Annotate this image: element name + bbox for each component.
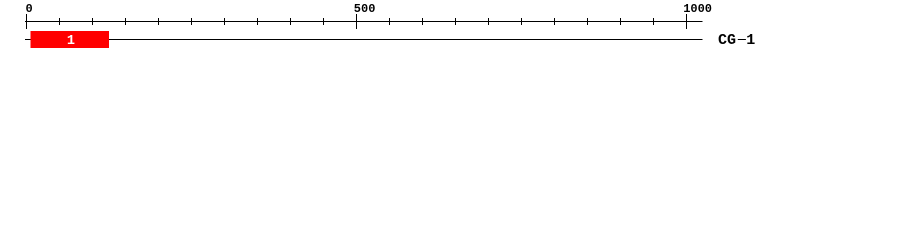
minor tick 50 — [59, 18, 60, 25]
svg-text:500: 500 — [354, 2, 376, 16]
minor tick 750 — [521, 18, 522, 25]
svg-text:1: 1 — [746, 32, 755, 49]
track connector line — [25, 39, 703, 40]
minor tick 100 — [92, 18, 93, 25]
minor tick 300 — [224, 18, 225, 25]
minor tick 550 — [389, 18, 390, 25]
minor tick 800 — [554, 18, 555, 25]
minor tick 850 — [587, 18, 588, 25]
minor tick 900 — [620, 18, 621, 25]
major tick 500 — [356, 14, 357, 29]
major tick 1000 — [686, 14, 687, 29]
track key label dash — [738, 39, 746, 40]
minor tick 650 — [455, 18, 456, 25]
feature box 1 (red) — [31, 31, 109, 48]
major tick 0 — [26, 14, 27, 29]
minor tick 350 — [257, 18, 258, 25]
ruler axis line — [25, 21, 703, 22]
minor tick 150 — [125, 18, 126, 25]
minor tick 700 — [488, 18, 489, 25]
minor tick 950 — [653, 18, 654, 25]
minor tick 400 — [290, 18, 291, 25]
svg-text:0: 0 — [26, 2, 33, 16]
minor tick 200 — [158, 18, 159, 25]
background — [0, 0, 900, 58]
minor tick 600 — [422, 18, 423, 25]
svg-text:1: 1 — [67, 34, 75, 49]
minor tick 250 — [191, 18, 192, 25]
svg-text:1000: 1000 — [683, 2, 712, 16]
svg-text:CG: CG — [718, 32, 736, 49]
minor tick 450 — [323, 18, 324, 25]
